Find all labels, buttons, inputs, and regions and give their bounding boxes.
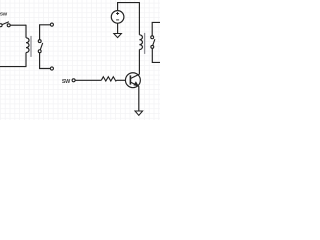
ground (below V1) bbox=[114, 34, 122, 38]
Q1 emitter diagonal bbox=[131, 82, 139, 86]
wire: SW terminal to resistor bbox=[75, 79, 101, 81]
wire: RLY1 contact bottom stub bbox=[40, 53, 51, 69]
Q1 collector diagonal bbox=[131, 74, 140, 78]
wire: V1 top to rail bbox=[118, 3, 140, 11]
switch SW left terminal circle bbox=[0, 24, 2, 27]
wire: emitter down to ground bbox=[138, 87, 140, 112]
wire: rail down to relay RLY2 coil bbox=[138, 2, 140, 35]
V1 minus sign bbox=[116, 19, 119, 21]
RLY1 contact lever bbox=[40, 43, 43, 50]
terminal node SW bbox=[72, 79, 75, 82]
wire: RLY1 contact top stub bbox=[40, 25, 51, 40]
ground (below Q1) bbox=[135, 111, 143, 115]
transistor Q1 circle bbox=[125, 73, 140, 88]
switch SW right terminal circle bbox=[7, 24, 10, 27]
RLY2 contact lever bbox=[153, 39, 155, 45]
relay RLY2 coil bbox=[139, 35, 142, 50]
RLY2 contact bottom circle bbox=[151, 45, 154, 48]
RLY1 contact bottom circle bbox=[38, 50, 41, 53]
wire: switch to coil top corner bbox=[10, 24, 26, 26]
wire: bottom rail of left loop bbox=[0, 66, 27, 68]
wire: V1 bottom to ground bbox=[117, 23, 119, 33]
relay RLY2 core bar bbox=[144, 33, 146, 54]
voltage source V1 circle bbox=[111, 11, 124, 24]
switch SW lever bbox=[2, 22, 9, 25]
svg-text:SW: SW bbox=[62, 79, 71, 85]
wire: coil bottom stem bbox=[25, 53, 27, 67]
terminal node (top contact) bbox=[50, 23, 53, 26]
RLY2 contact top circle bbox=[151, 36, 154, 39]
Q1 base bar bbox=[129, 75, 131, 84]
relay RLY1 core bar bbox=[30, 36, 32, 57]
wire: RLY2 contact bottom stub to right edge bbox=[152, 48, 160, 62]
RLY1 contact top circle bbox=[38, 40, 41, 43]
resistor R1 bbox=[101, 77, 116, 81]
terminal node (bottom contact) bbox=[50, 67, 53, 70]
wire: resistor to base bbox=[117, 79, 126, 81]
V1 plus sign bbox=[116, 12, 119, 15]
Q1 emitter arrowhead bbox=[133, 81, 139, 86]
wire: RLY2 contact top stub to right edge bbox=[152, 22, 160, 35]
wire: coil top stem bbox=[25, 25, 27, 38]
wire: coil bottom to collector bbox=[138, 50, 140, 75]
relay RLY1 coil bbox=[26, 38, 29, 53]
svg-text:SW: SW bbox=[0, 12, 8, 18]
